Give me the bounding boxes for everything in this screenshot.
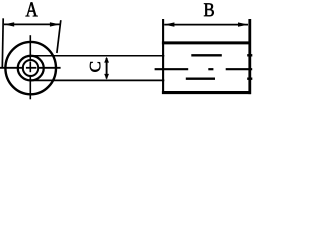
label C (rotated) bbox=[90, 62, 100, 72]
dimension B line bbox=[164, 24, 248, 26]
shaft top line bbox=[31, 55, 165, 57]
dimension A line bbox=[4, 23, 60, 25]
dimension A right arrowhead bbox=[50, 22, 60, 26]
cylinder body bottom edge bbox=[162, 91, 251, 94]
dimension A right extension line bbox=[57, 20, 61, 53]
dimension C bottom arrowhead bbox=[104, 74, 109, 80]
dimension A left arrowhead bbox=[4, 22, 14, 26]
middle circle bbox=[18, 56, 44, 81]
dimension B left extension line and body left edge bbox=[162, 19, 164, 94]
dimension C arrow line bbox=[106, 58, 108, 79]
horizontal centerline bbox=[0, 67, 61, 69]
dimension B right extension line and body right edge bbox=[248, 19, 251, 94]
shaft bottom line bbox=[31, 79, 165, 81]
small circle bbox=[23, 60, 38, 76]
dimension A left extension line bbox=[1, 18, 4, 68]
dimension C top arrowhead bbox=[104, 57, 109, 63]
label A bbox=[26, 2, 38, 16]
axis centerline in body bbox=[155, 68, 253, 70]
dimension B right arrowhead bbox=[238, 22, 248, 26]
label B bbox=[204, 3, 214, 16]
hidden line top bbox=[191, 54, 252, 56]
outer circle bbox=[5, 42, 56, 94]
dimension B left arrowhead bbox=[164, 22, 174, 26]
vertical centerline bbox=[29, 35, 31, 99]
hidden line bottom bbox=[186, 77, 253, 79]
cylinder body top edge bbox=[162, 41, 251, 44]
